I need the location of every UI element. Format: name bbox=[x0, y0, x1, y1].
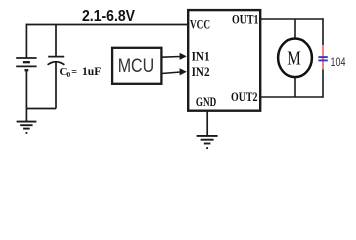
wire arrow MCU to IN1 bbox=[162, 53, 187, 60]
svg-text:IN2: IN2 bbox=[192, 65, 210, 79]
svg-text:OUT2: OUT2 bbox=[231, 90, 258, 104]
IC driver U1 (motor driver) bbox=[188, 10, 260, 111]
wire right branch upper black bbox=[322, 18, 324, 45]
ground (battery) bbox=[17, 122, 37, 133]
wire capacitor lead red (behind plates) bbox=[322, 45, 324, 69]
wire motor top stub bbox=[294, 19, 296, 39]
ground (IC) bbox=[197, 136, 218, 148]
wire C0 top vertical bbox=[55, 25, 57, 56]
svg-text:VCC: VCC bbox=[190, 17, 210, 31]
wire motor bottom stub bbox=[294, 77, 296, 97]
svg-text:OUT1: OUT1 bbox=[232, 13, 259, 27]
capacitor C0 (polarized) bbox=[48, 57, 65, 65]
wire battery bottom vertical bbox=[25, 71, 27, 109]
svg-text:MCU: MCU bbox=[118, 56, 155, 77]
battery BT1 bbox=[16, 58, 36, 70]
svg-text:GND: GND bbox=[196, 95, 216, 109]
wire bottom-left horizontal (battery to C0) bbox=[26, 108, 56, 110]
wire arrow MCU to IN2 bbox=[162, 68, 187, 75]
svg-text:M: M bbox=[287, 48, 301, 70]
svg-text:0: 0 bbox=[67, 71, 71, 79]
MCU block U2 bbox=[112, 48, 161, 84]
wire ground stub left bbox=[25, 109, 27, 122]
wire C0 bottom vertical bbox=[55, 63, 57, 109]
motor M bbox=[278, 39, 312, 78]
svg-text:1uF: 1uF bbox=[82, 65, 101, 78]
wire battery top vertical bbox=[25, 24, 27, 58]
wire OUT1 to right branch bbox=[260, 18, 323, 20]
label C0 = 1uF bbox=[60, 65, 102, 79]
capacitor C2 ceramic 104 (blue plates) bbox=[318, 57, 327, 60]
svg-text:=: = bbox=[71, 67, 77, 78]
svg-text:104: 104 bbox=[331, 57, 346, 69]
wire right branch lower black bbox=[322, 69, 324, 97]
wire OUT2 to right branch bbox=[260, 96, 323, 98]
wire VCC top rail bbox=[26, 24, 189, 26]
wire GND stub of IC bbox=[206, 111, 208, 136]
svg-text:2.1-6.8V: 2.1-6.8V bbox=[82, 8, 135, 25]
svg-text:IN1: IN1 bbox=[192, 49, 210, 63]
